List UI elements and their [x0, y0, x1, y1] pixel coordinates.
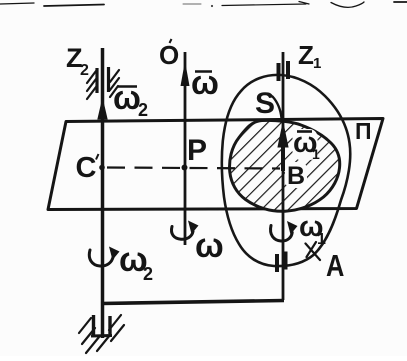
- frame bottom link: [101, 301, 284, 304]
- svg-text:ω: ω: [195, 227, 224, 265]
- halo behind B label: [285, 162, 307, 188]
- svg-text:2: 2: [143, 264, 153, 284]
- svg-text:П: П: [355, 118, 372, 144]
- vector ω̄1 head: [277, 121, 288, 148]
- svg-text:P: P: [187, 134, 207, 167]
- node P (dot): [182, 165, 188, 171]
- dashed centre line C–P–B: [107, 168, 280, 169]
- svg-text:2: 2: [80, 62, 89, 79]
- axis Z2 (left shaft): [101, 48, 105, 338]
- rotor cross-section (hatched inner blob): [230, 120, 340, 211]
- bearing on Z2 (right bar): [107, 67, 110, 92]
- scan artifact short line: [183, 3, 201, 5]
- fixed support hatching: [79, 315, 124, 353]
- bearing hatch left: [87, 71, 96, 99]
- vector ω̄1 shaft: [281, 138, 285, 171]
- lower bearing on Z1 (right tick): [284, 252, 288, 270]
- svg-text:2: 2: [138, 100, 148, 120]
- svg-text:1: 1: [313, 55, 321, 72]
- bearing on Z2 (left bar): [95, 68, 98, 93]
- scan artifact right corner line: [394, 1, 407, 3]
- svg-text:C: C: [76, 152, 97, 184]
- vector arrow ω̄2 head: [97, 97, 107, 120]
- scan artifact line top-left: [0, 3, 34, 4]
- scan artifact line top second: [44, 5, 104, 7]
- svg-text:ω: ω: [113, 79, 141, 116]
- curved arrow ω (central): [171, 227, 193, 240]
- curved arrow ω2: [89, 250, 113, 266]
- curved arrow ω1: [271, 226, 293, 242]
- upper bearing on Z1 (left tick): [277, 63, 281, 81]
- fixed support (ground) bottom bar: [91, 334, 112, 338]
- scan artifact curve top-right: [331, 2, 364, 7]
- svg-text:ω: ω: [191, 64, 219, 101]
- fixed support (ground) right bar: [108, 316, 111, 334]
- vector arrow ω̄ head: [181, 61, 190, 86]
- upper bearing on Z1 (right tick): [286, 61, 290, 79]
- leader from S to axis: [273, 97, 282, 119]
- scan artifact long line with arrow: [222, 2, 309, 6]
- fixed support (ground) left bar: [92, 315, 95, 336]
- body outline (outer blob around rotor): [222, 75, 350, 266]
- svg-text:Z: Z: [298, 40, 314, 70]
- plane П (parallelogram): [48, 119, 383, 210]
- svg-text:S: S: [255, 87, 275, 120]
- svg-text:1: 1: [317, 231, 326, 248]
- node C (dot on axis Z2): [99, 165, 105, 171]
- svg-text:B: B: [287, 162, 305, 190]
- axis Z1 (right shaft): [282, 52, 285, 300]
- bearing hatch right: [110, 70, 119, 97]
- svg-text:A: A: [326, 249, 344, 284]
- leader cross at A: [306, 242, 321, 260]
- svg-text:1: 1: [312, 146, 320, 162]
- svg-text:O: O: [159, 40, 179, 70]
- scan artifact dot: [211, 5, 213, 7]
- halo behind ω̄1 label: [293, 129, 318, 160]
- lower bearing on Z1 (left tick): [275, 254, 279, 272]
- axis O (central vertical): [184, 52, 187, 245]
